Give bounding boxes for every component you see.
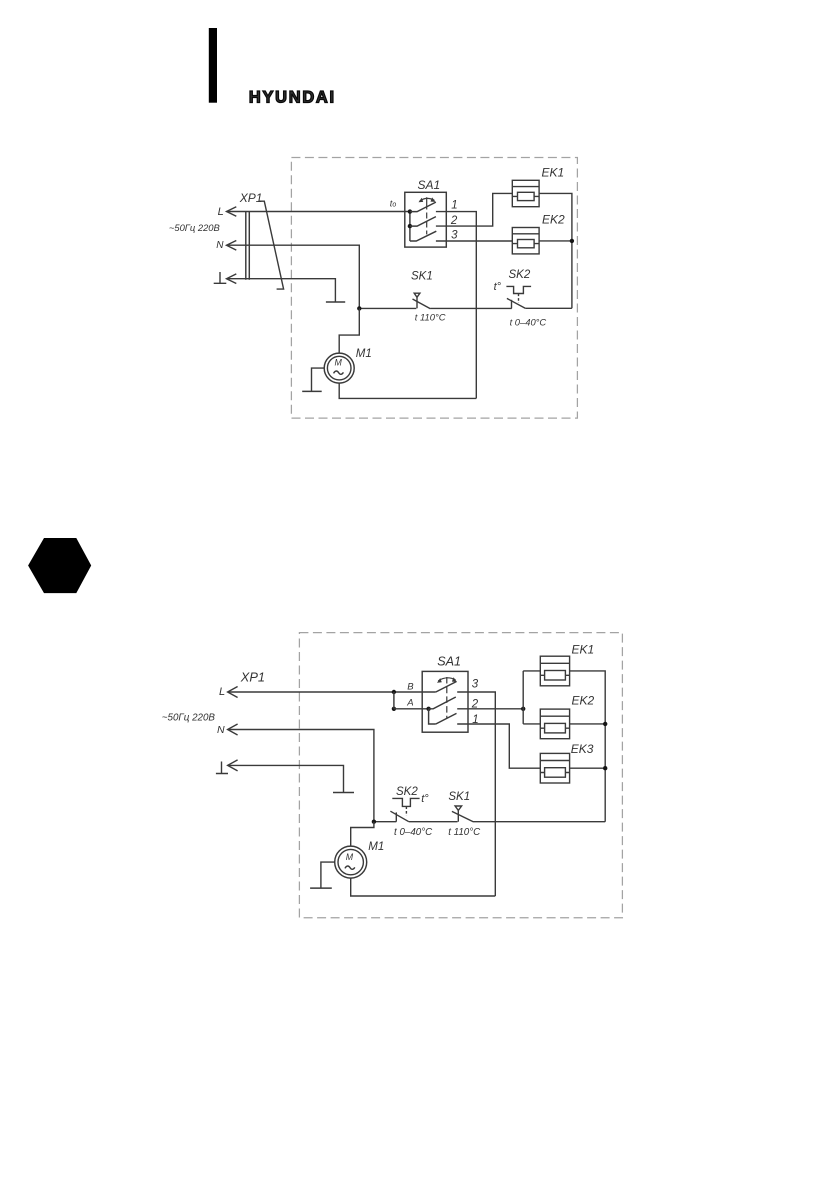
junction dot B xyxy=(392,690,396,694)
svg-text:B: B xyxy=(407,682,414,693)
thermal switch SK2 button 2 xyxy=(392,798,419,806)
thermal switch SK2 dashed stem xyxy=(518,294,520,304)
node N arrow 2 xyxy=(228,724,238,735)
switch SA1 arc arrowhead left xyxy=(419,198,424,203)
heater EK1 2 xyxy=(540,656,569,686)
junction dot EK2 right xyxy=(603,722,607,726)
wire SK2 to bus xyxy=(525,307,572,309)
thermal switch SK2 contact xyxy=(507,298,525,308)
svg-text:M1: M1 xyxy=(368,841,384,853)
wire pin2 to EK bus xyxy=(457,708,523,710)
motor M1 tilde 2 xyxy=(345,866,355,869)
switch SA1 box 2 xyxy=(422,671,468,732)
motor M1 left lead to ground 2 xyxy=(321,862,335,888)
svg-text:3: 3 xyxy=(472,679,479,691)
wire pin3 to EK2 xyxy=(436,240,512,242)
switch SA1 arc arrowhead right 2 xyxy=(452,677,457,682)
svg-text:t 0–40°C: t 0–40°C xyxy=(510,316,547,327)
switch SA1 blade 3 (B row) xyxy=(436,682,457,693)
thermal switch SK2 button xyxy=(506,286,531,293)
svg-text:SK2: SK2 xyxy=(509,269,531,281)
wire EK3 right xyxy=(570,767,606,769)
wire N to junction 2 xyxy=(229,730,374,822)
wire pin2 to EK1 xyxy=(436,193,512,226)
svg-text:SK2: SK2 xyxy=(396,786,418,798)
junction dot A xyxy=(392,707,396,711)
ground bar motor 1 xyxy=(302,390,322,392)
motor M1 xyxy=(324,353,354,383)
thermal switch SK1 xyxy=(413,293,431,309)
wire bus to EK2 xyxy=(523,723,540,725)
earth terminal symbol xyxy=(214,272,227,283)
wire B-A link xyxy=(393,692,395,709)
svg-text:N: N xyxy=(217,724,225,736)
wire L to SA1 2 xyxy=(229,691,436,693)
svg-text:t 0–40°C: t 0–40°C xyxy=(394,827,433,838)
motor M1 tilde xyxy=(334,371,344,374)
wire EK2 right to bus xyxy=(539,240,572,242)
switch SA1 dashed axis xyxy=(426,197,428,234)
svg-text:EK2: EK2 xyxy=(572,694,595,708)
dashed enclosure frame 1 xyxy=(291,158,577,419)
wire EK right bus xyxy=(570,671,606,822)
thermal switch SK1 2 xyxy=(452,806,473,822)
heater EK3 xyxy=(540,753,569,783)
motor M1 2 xyxy=(335,846,367,878)
switch SA1 blade 1 feed xyxy=(429,709,436,724)
svg-text:t 110°C: t 110°C xyxy=(448,827,481,838)
wire junction to SK1 xyxy=(359,307,416,309)
svg-text:tо: tо xyxy=(390,198,397,208)
wire EK1 right to bus xyxy=(539,193,572,308)
svg-text:XP1: XP1 xyxy=(239,191,263,205)
svg-text:L: L xyxy=(219,686,225,698)
wire pin1 to motor branch xyxy=(436,212,476,399)
ground bar 1 xyxy=(326,301,345,303)
junction dot pin2 bus xyxy=(521,707,525,711)
switch SA1 common bus xyxy=(409,212,411,241)
wire pin3 to motor return xyxy=(457,692,495,896)
node N arrow xyxy=(227,241,237,251)
junction dot N branch 2 xyxy=(372,820,376,824)
dashed enclosure frame 2 xyxy=(299,633,622,918)
wire N to junction xyxy=(227,245,359,308)
junction dot SA1 pin b xyxy=(408,224,412,228)
switch SA1 blade 2 xyxy=(429,697,456,709)
wire EK1-EK2 left bus xyxy=(522,671,524,724)
wire bus to EK1 xyxy=(523,670,540,672)
svg-text:SK1: SK1 xyxy=(411,271,433,283)
svg-text:~50Гц 220В: ~50Гц 220В xyxy=(169,222,220,233)
svg-text:HYUNDAI: HYUNDAI xyxy=(249,88,336,106)
wire SK1 to EK bus 2 xyxy=(473,821,605,823)
node L arrow 2 xyxy=(228,687,238,698)
svg-text:M: M xyxy=(346,852,354,862)
connector XP1 leader line xyxy=(260,201,284,289)
heater EK2 xyxy=(512,228,539,254)
junction dot EK3 right xyxy=(603,766,607,770)
svg-text:EK3: EK3 xyxy=(571,742,594,756)
switch SA1 blade 1 xyxy=(436,713,457,724)
junction dot EK2 bus xyxy=(570,239,574,243)
thermal switch SK2 contact 2 xyxy=(390,811,408,822)
svg-text:A: A xyxy=(406,697,413,708)
svg-text:EK1: EK1 xyxy=(542,166,565,180)
heater EK2 2 xyxy=(540,709,569,739)
thermal switch SK2 dashed stem 2 xyxy=(405,806,407,815)
heater EK1 xyxy=(512,180,539,206)
junction dot SA1 pin a xyxy=(408,209,412,213)
switch SA1 dashed axis 2 xyxy=(446,677,448,718)
svg-text:t°: t° xyxy=(494,281,502,293)
ground bar motor 2 xyxy=(310,887,332,889)
svg-text:SA1: SA1 xyxy=(418,178,441,192)
ground bar earth 2 xyxy=(333,792,354,794)
wire EK2 right xyxy=(570,723,606,725)
switch SA1 box xyxy=(405,192,447,247)
wire SK2 to SK1 2 xyxy=(409,821,458,823)
svg-text:N: N xyxy=(216,240,224,251)
junction dot N branch xyxy=(357,306,361,310)
wire junction to motor 2 xyxy=(351,822,374,847)
node L arrow xyxy=(227,207,237,217)
svg-text:XP1: XP1 xyxy=(240,669,265,684)
wire motor bottom return 2 xyxy=(351,878,496,896)
switch SA1 rotary arc 2 xyxy=(438,678,455,681)
Hyundai logo bar xyxy=(209,28,217,103)
svg-text:t°: t° xyxy=(421,793,429,805)
wire SK1 to SK2 xyxy=(430,307,511,309)
wire junction to motor M1 xyxy=(339,308,359,353)
switch SA1 arc arrowhead left 2 xyxy=(437,678,442,683)
motor M1 left lead to ground xyxy=(312,368,325,391)
wire earth to ground xyxy=(227,279,336,302)
connector XP1 double bar xyxy=(246,211,250,280)
wire pin1 to EK3 xyxy=(457,724,540,768)
wire junction to SK2 2 xyxy=(374,821,396,823)
switch SA1 rotary arc xyxy=(420,198,435,200)
wire L to SA1 xyxy=(227,211,410,213)
wire A row xyxy=(394,708,429,710)
svg-text:1: 1 xyxy=(451,199,457,211)
svg-text:M: M xyxy=(335,357,343,367)
svg-text:SA1: SA1 xyxy=(437,655,461,669)
svg-text:L: L xyxy=(218,206,224,218)
svg-text:2: 2 xyxy=(450,215,458,227)
switch SA1 blade 1 xyxy=(410,202,436,212)
black hexagon bullet xyxy=(28,538,91,593)
switch SA1 arc arrowhead right xyxy=(431,197,436,202)
wire earth to ground 2 xyxy=(229,765,344,792)
svg-text:EK1: EK1 xyxy=(572,642,595,656)
svg-text:~50Гц 220В: ~50Гц 220В xyxy=(162,713,216,724)
svg-text:M1: M1 xyxy=(356,348,372,360)
switch SA1 blade 3 xyxy=(410,231,436,241)
svg-text:EK2: EK2 xyxy=(542,213,565,227)
svg-text:SK1: SK1 xyxy=(448,791,470,803)
earth arrow xyxy=(227,274,237,284)
junction dot A inner xyxy=(426,707,430,711)
svg-text:t 110°C: t 110°C xyxy=(415,311,446,322)
wire motor bottom return xyxy=(339,383,476,398)
earth terminal symbol 2 xyxy=(216,762,228,774)
switch SA1 blade 2 xyxy=(410,217,436,227)
earth arrow 2 xyxy=(228,760,238,771)
svg-text:3: 3 xyxy=(451,229,458,241)
